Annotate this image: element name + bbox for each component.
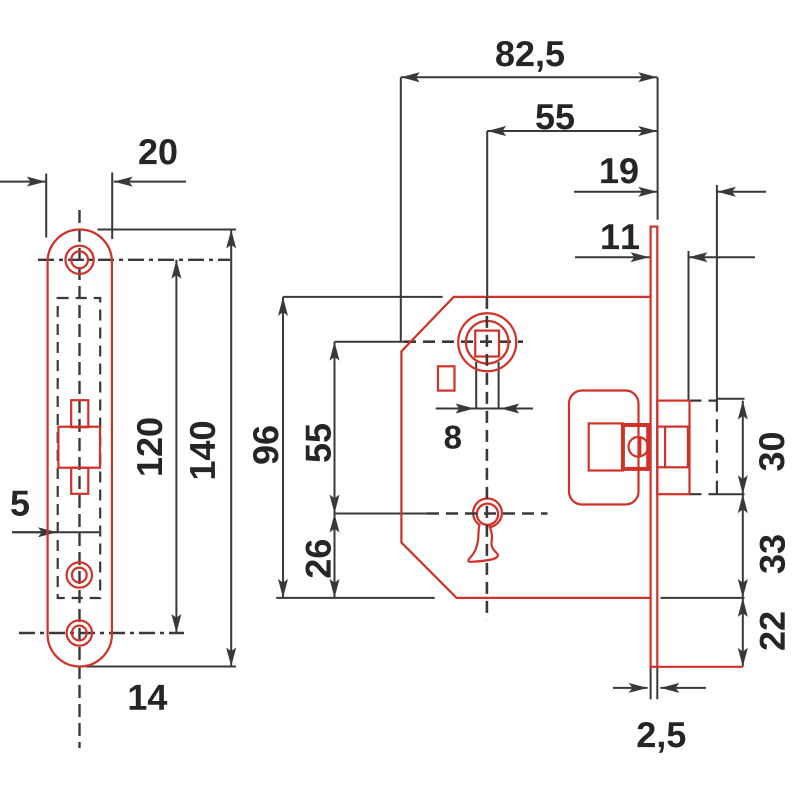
dim 20 left extension	[45, 174, 47, 238]
bolt head outer rect	[657, 401, 689, 495]
strike plate centreline	[78, 210, 80, 748]
dim 5 leader line	[12, 531, 99, 533]
dim 8 left arrow	[436, 408, 475, 410]
dim 20 left leader	[0, 181, 46, 183]
faceplate	[651, 227, 658, 667]
strike plate dashed cutout box	[58, 298, 100, 598]
bottom screw hole inner	[72, 626, 87, 641]
dim 20 right leader	[114, 181, 186, 183]
top screw hole centreline	[38, 259, 230, 261]
bolt head inner rect	[657, 427, 688, 468]
label 55	[306, 424, 331, 462]
dim 82,5 left extension	[400, 77, 402, 342]
dim 19 left leader	[574, 191, 657, 193]
hub spindle square	[475, 331, 499, 357]
middle screw hole inner	[72, 568, 87, 583]
dim 96 top extension	[283, 296, 443, 298]
latch cutout middle rect	[58, 427, 100, 468]
keyhole horizontal centreline	[427, 512, 548, 515]
label 82,5	[496, 41, 564, 72]
latch cutout upper rect	[71, 400, 88, 427]
bolt housing rounded rect	[569, 391, 639, 505]
dim 2,5 right leader	[660, 687, 706, 689]
dim 2,5 left leader	[613, 687, 648, 689]
bolt body thick square	[623, 425, 648, 469]
bolt thrown dashed top	[690, 400, 717, 402]
top screw hole outer	[66, 246, 94, 274]
latch cutout lower rect	[71, 468, 88, 494]
small stop rectangle	[438, 366, 455, 390]
dim 26 line	[334, 514, 336, 598]
bolt thrown dashed bottom	[690, 493, 717, 495]
label 11	[602, 224, 639, 249]
bottom screw hole outer	[67, 620, 92, 645]
spindle shaft left line	[475, 362, 477, 409]
label 14	[130, 685, 168, 710]
bottom screw hole centreline	[19, 632, 184, 634]
keyhole ring outer	[473, 499, 502, 528]
dim 22 line	[742, 598, 744, 667]
bottom right red extension	[657, 666, 743, 668]
dim 2,5 left extension	[650, 667, 652, 700]
dim 20 right extension	[111, 173, 113, 240]
middle screw hole outer	[67, 562, 92, 587]
label 120	[137, 418, 163, 474]
dim 140 line	[230, 230, 232, 667]
bolt thrown dashed right	[716, 399, 718, 495]
dim 55 top extension	[486, 131, 488, 297]
label 2,5	[638, 722, 686, 753]
bolt head divider	[664, 427, 666, 468]
keyhole stem	[468, 524, 498, 562]
dim 140 top extension	[98, 229, 237, 231]
dim 33 line	[742, 494, 744, 598]
label 33	[760, 535, 786, 573]
label 19	[601, 158, 638, 184]
dim 96 line	[282, 297, 284, 598]
dim 55 left line	[334, 342, 336, 514]
cam screw circle	[629, 437, 649, 457]
dim 140 bottom extension	[86, 666, 236, 668]
dim 5 arrow	[12, 531, 57, 533]
lock bottom right extension	[661, 597, 745, 599]
hub horizontal centreline	[404, 340, 523, 343]
keyhole stem interior mask	[468, 518, 498, 562]
dim 30 bottom extension	[717, 493, 745, 495]
dim 55 top line	[487, 130, 657, 132]
label 140	[190, 422, 216, 478]
hub vertical centreline	[486, 297, 489, 620]
dim 11 right extension	[688, 251, 690, 401]
dim 96 bottom extension	[276, 597, 435, 599]
label 55	[536, 104, 574, 129]
dim 30 top extension	[717, 398, 745, 400]
dim 8 right arrow	[500, 408, 533, 410]
keyhole centre extension solid	[335, 513, 428, 515]
label 8	[445, 426, 461, 449]
dim 11 left leader	[575, 256, 650, 258]
dim 120 line	[175, 260, 177, 633]
cam screw slot	[639, 437, 641, 457]
dim 82,5 right extension	[657, 77, 659, 220]
hub centre extension solid	[335, 341, 405, 343]
lock body outline	[401, 297, 650, 598]
strike plate outline	[48, 230, 112, 667]
dim 8 line	[436, 408, 533, 410]
label 26	[306, 540, 332, 578]
bolt tail square	[589, 423, 623, 470]
dim 19 right extension	[716, 185, 718, 399]
hub outer circle	[458, 313, 516, 371]
keyhole ring inner	[477, 504, 498, 525]
hub inner circle	[466, 321, 509, 364]
label 96	[253, 426, 279, 464]
label 22	[760, 612, 785, 649]
dim 30 line	[742, 401, 744, 495]
dim 19 right leader	[717, 191, 766, 193]
label 5	[11, 491, 29, 516]
dim 82,5 line	[401, 76, 658, 78]
spindle shaft right line	[498, 362, 500, 409]
dim 2,5 right extension	[656, 667, 658, 700]
top screw hole inner	[71, 251, 88, 268]
dim 11 right leader	[689, 256, 756, 258]
label 20	[139, 139, 176, 165]
label 30	[759, 433, 785, 471]
